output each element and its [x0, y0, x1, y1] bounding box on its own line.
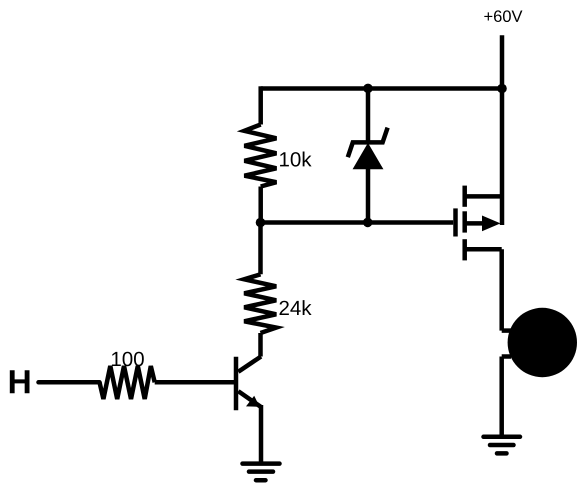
junction dot zener anode on gate net	[363, 218, 373, 228]
transistor Q1 NPN	[236, 357, 261, 411]
ground right	[484, 437, 521, 454]
junction dot gate net left	[256, 218, 266, 228]
net label +60V	[484, 10, 522, 22]
resistor R1 10k	[244, 125, 276, 187]
wire emitter to ground	[259, 405, 264, 464]
resistor R3 100	[100, 366, 155, 399]
label 24k	[280, 300, 312, 315]
MOSFET M1 (N-channel)	[456, 186, 503, 261]
input label H	[10, 370, 30, 393]
speaker load filled circle	[508, 308, 577, 377]
wire speaker bottom stub	[502, 354, 511, 359]
wire 10k top lead	[258, 86, 263, 124]
wire 24k bottom lead to collector	[258, 333, 263, 357]
wire base	[155, 380, 234, 385]
wire 24k top lead	[258, 223, 263, 275]
junction dot rail corner	[497, 84, 507, 94]
ground left	[243, 464, 280, 481]
zener diode D1 cathode bar with bent ends	[348, 128, 388, 158]
junction dot zener top	[363, 84, 373, 94]
wire speaker top stub	[502, 328, 511, 333]
zener diode D1 anode triangle	[354, 145, 381, 169]
wire top rail horizontal	[261, 86, 502, 91]
wire speaker to ground	[499, 357, 504, 437]
wire zener top lead	[366, 88, 371, 142]
label 10k	[280, 152, 312, 167]
wire +60V rail vertical (top to MOSFET drain/body)	[500, 35, 505, 225]
resistor R2 24k	[244, 274, 276, 333]
wire gate net	[261, 220, 454, 225]
wire input	[39, 380, 100, 385]
wire zener bottom lead	[366, 166, 371, 222]
label 100	[112, 352, 144, 367]
wire source lead vertical	[499, 249, 504, 330]
wire 10k bottom lead	[258, 187, 263, 223]
